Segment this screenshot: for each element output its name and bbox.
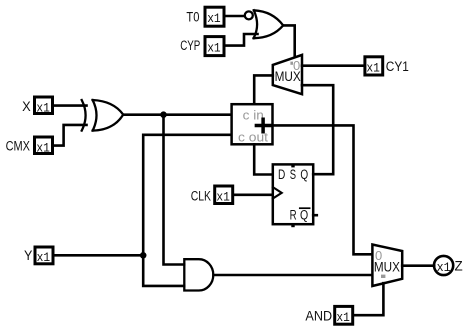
mux U7 (output MUX) — [372, 245, 402, 287]
clock edge triangle — [273, 187, 282, 198]
svg-text:x1: x1 — [366, 61, 380, 75]
svg-text:MUX: MUX — [275, 69, 301, 84]
wire AND output to MUX2 input1 — [214, 274, 373, 277]
input terminal CYP — [180, 37, 224, 56]
wire Y net down to AND gate bottom input — [143, 255, 184, 286]
svg-text:X: X — [22, 99, 31, 114]
svg-text:CLK: CLK — [191, 188, 211, 203]
input terminal CMX — [6, 137, 53, 155]
wire Y net to adder input B — [143, 135, 231, 256]
svg-text:R: R — [290, 207, 297, 222]
pin Sbar tick on top edge — [291, 164, 294, 167]
svg-text:c in: c in — [243, 108, 264, 123]
wire OR output to MUX1 select — [283, 25, 295, 57]
output terminal Z — [434, 256, 463, 275]
input terminal X — [22, 97, 52, 115]
svg-text:x1: x1 — [207, 12, 221, 26]
svg-text:x1: x1 — [37, 251, 51, 265]
and gate U6 — [184, 259, 213, 290]
pin Qbar stub — [313, 214, 317, 217]
Qbar overbar — [300, 207, 310, 209]
pin R tick on bottom edge — [291, 223, 294, 227]
svg-text:x1: x1 — [437, 261, 451, 275]
input terminal AND — [305, 306, 352, 325]
svg-text:x1: x1 — [336, 311, 350, 325]
wire Y to junction — [54, 254, 143, 257]
OR gate U1 (inverted T0 input) — [245, 10, 283, 38]
wire T0 to OR bubble — [225, 15, 244, 18]
svg-text:CMX: CMX — [6, 139, 30, 154]
svg-text:x1: x1 — [36, 141, 50, 155]
adder U4 — [232, 104, 273, 144]
svg-text:Q: Q — [300, 167, 308, 182]
wire adder sum to MUX2 input0 — [273, 125, 373, 254]
svg-text:x1: x1 — [207, 41, 221, 55]
mux U2 (carry MUX) — [273, 55, 302, 94]
node XOR output junction — [160, 111, 167, 118]
svg-text:D: D — [278, 167, 285, 182]
svg-text:T0: T0 — [186, 9, 199, 24]
svg-text:MUX: MUX — [374, 259, 400, 274]
input terminal T0 — [186, 7, 224, 26]
wire adder c_out to flip-flop D — [254, 144, 273, 174]
svg-text:x1: x1 — [216, 191, 230, 205]
flip-flop U5 — [273, 164, 317, 227]
svg-text:S: S — [290, 167, 296, 182]
wire CLK to flip-flop clock — [234, 194, 273, 197]
svg-text:CY1: CY1 — [386, 59, 409, 74]
wire XOR junction down to AND gate top input — [164, 115, 185, 265]
input terminal Y — [24, 247, 53, 265]
svg-text:Y: Y — [24, 248, 32, 263]
svg-text:Z: Z — [455, 259, 463, 274]
wire CMX to XOR — [54, 125, 87, 146]
wire flip-flop Q to MUX1 input1 — [302, 85, 333, 174]
wire MUX1 input0 to CY1 terminal — [302, 64, 364, 67]
wire XOR output to adder input A — [123, 113, 231, 116]
svg-text:AND: AND — [305, 309, 332, 324]
wire AND terminal to MUX2 select — [354, 283, 384, 315]
wire CYP to OR gate — [225, 34, 258, 46]
node Y junction — [140, 252, 147, 259]
input terminal CLK — [191, 186, 233, 205]
svg-text:x1: x1 — [36, 101, 50, 115]
wire MUX1 output to adder c_in — [254, 75, 273, 104]
wire MUX2 output to Z — [402, 264, 434, 267]
svg-text:Q: Q — [300, 208, 308, 223]
output terminal CY1 — [365, 57, 409, 76]
svg-text:CYP: CYP — [180, 38, 200, 53]
xor gate U3 — [82, 100, 124, 131]
wire X to XOR — [54, 104, 87, 107]
